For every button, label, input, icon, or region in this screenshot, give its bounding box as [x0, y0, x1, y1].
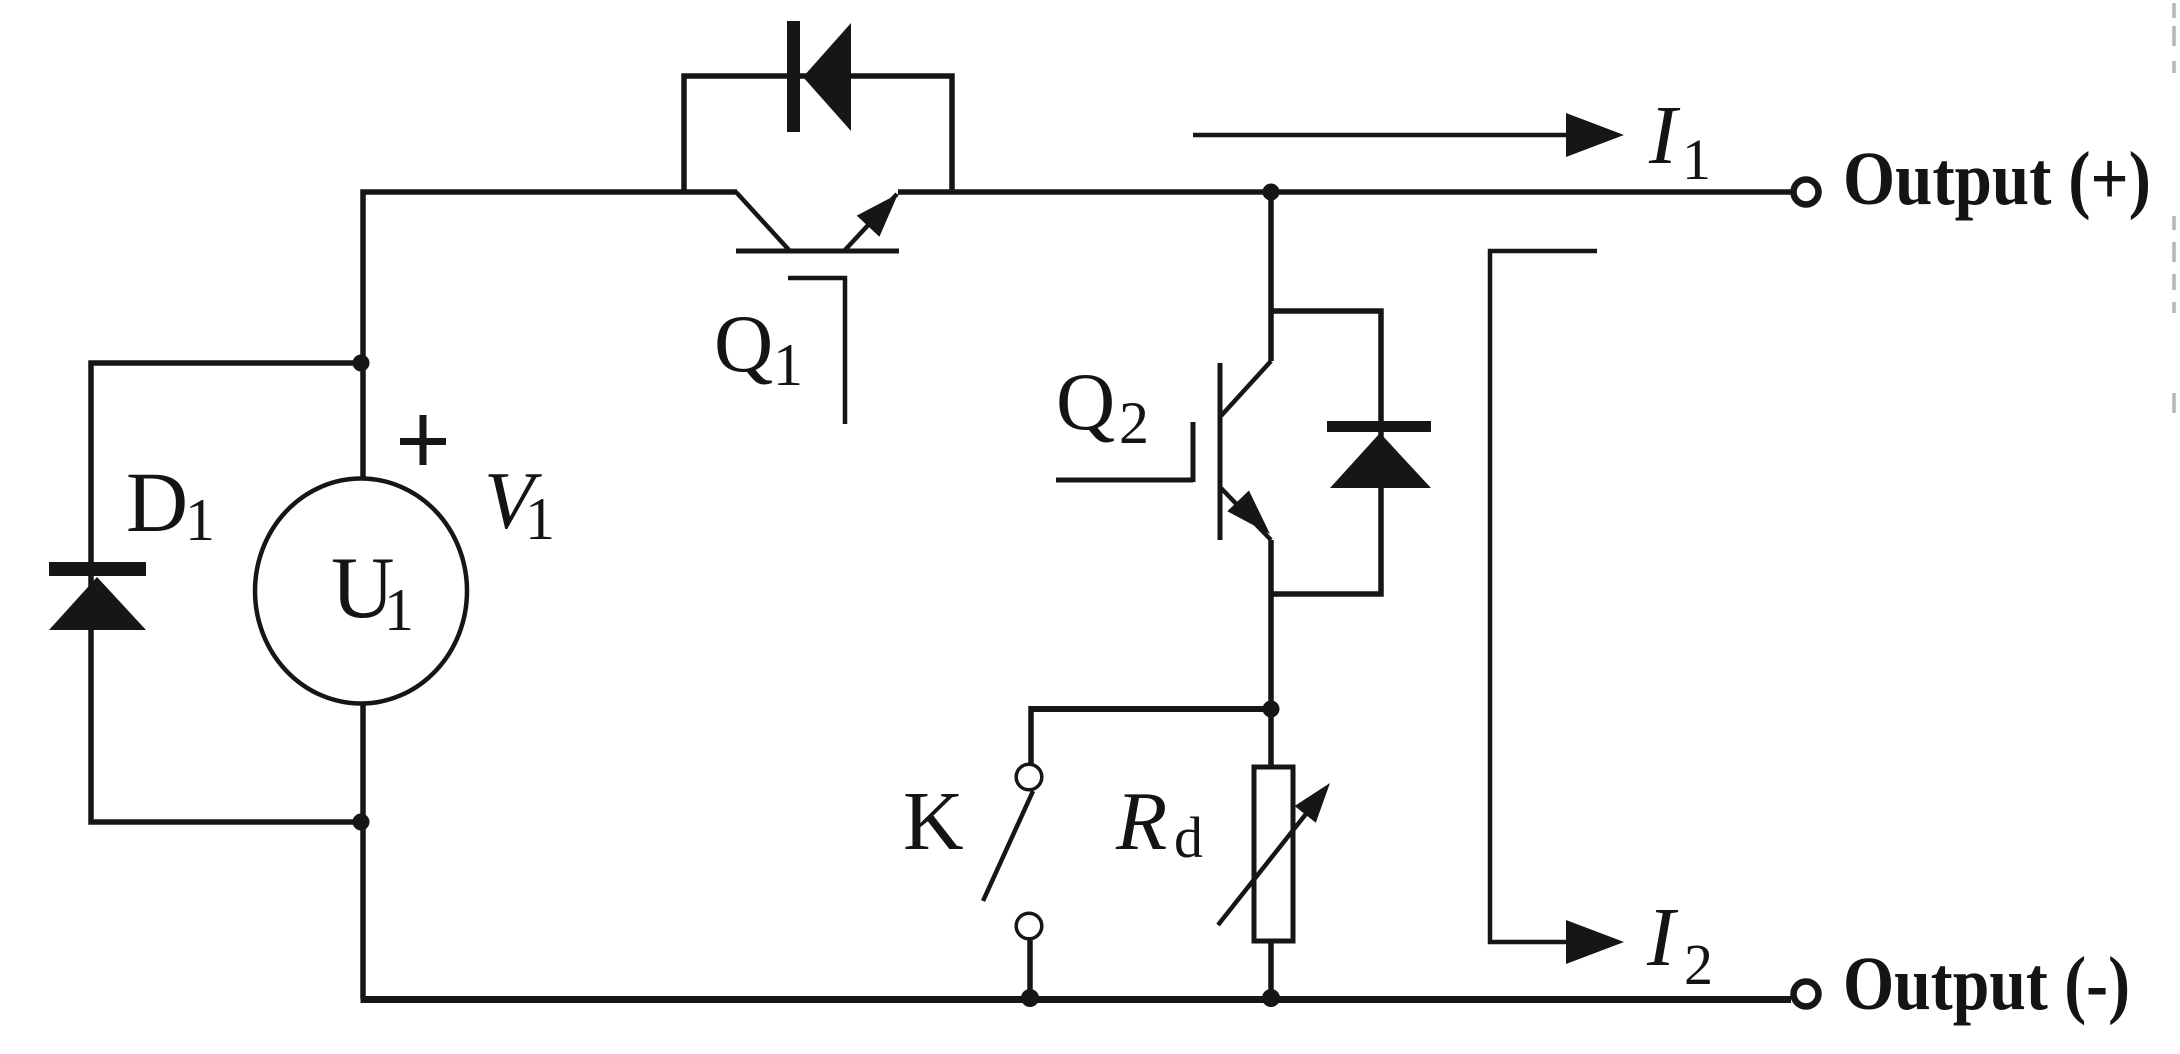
- svg-text:1: 1: [384, 577, 414, 643]
- dashed page-edge line: [2172, 3, 2176, 413]
- svg-text:Q: Q: [1056, 356, 1115, 447]
- diode D1: [49, 562, 146, 630]
- svg-text:1: 1: [185, 487, 215, 553]
- current arrow I1: [1566, 113, 1624, 157]
- node B: U1/D1 top junction: [353, 355, 370, 372]
- transistor Q2: [1056, 361, 1271, 540]
- wire left-bottom: U1 bottom down and bottom rail to Output(-) terminal: [360, 703, 366, 999]
- Q2 emitter diagonal: [1220, 487, 1271, 540]
- Q2 gate bar: [1191, 422, 1196, 482]
- node A: top junction at Q2 trunk: [1263, 184, 1280, 201]
- terminal Output (-): [1794, 982, 1819, 1007]
- Q1 gate bar and lead: [788, 278, 845, 424]
- Rd arrowhead: [1295, 783, 1330, 823]
- Q1 collector diagonal: [736, 192, 789, 250]
- transistor Q1: [736, 192, 899, 424]
- Q2 gate lead: [1056, 478, 1193, 483]
- diode of Q2 (anti-parallel): [1327, 421, 1431, 488]
- K bottom contact: [1016, 913, 1042, 939]
- resistor Rd (variable): [1218, 767, 1330, 941]
- node F: Rd bottom junction on rail: [1262, 989, 1280, 1007]
- wire bottom rail: [361, 996, 1792, 1003]
- svg-text:1: 1: [525, 486, 555, 552]
- svg-text:d: d: [1174, 805, 1203, 870]
- wire top-left: vertical from U1 up and across to Q1 collector: [363, 192, 737, 478]
- K top contact: [1016, 764, 1042, 790]
- svg-text:D: D: [126, 454, 188, 550]
- switch K: [983, 764, 1042, 939]
- Q1 body bar: [736, 249, 899, 254]
- svg-text:I: I: [1646, 891, 1679, 984]
- svg-text:1: 1: [773, 332, 803, 398]
- wire Q2 diode loop: [1271, 311, 1381, 594]
- terminal Output (+): [1794, 180, 1819, 205]
- voltage source U1: [255, 479, 467, 704]
- Q2 emitter arrowhead: [1227, 491, 1270, 535]
- svg-text:2: 2: [1684, 932, 1713, 997]
- wire I2 hook: [1490, 251, 1597, 942]
- wire K branch horizontal: [1031, 706, 1271, 712]
- wire Q2 trunk lower: [1268, 540, 1274, 999]
- Q1 emitter diagonal: [845, 194, 897, 250]
- svg-text:R: R: [1115, 775, 1167, 868]
- svg-text:K: K: [903, 775, 964, 868]
- node C: U1/D1 bottom junction: [353, 814, 370, 831]
- wire top-right: from Q1 emitter to Output(+) terminal: [898, 189, 1791, 195]
- svg-text:Output (+): Output (+): [1843, 137, 2151, 221]
- Q2 collector diagonal: [1220, 361, 1271, 417]
- wire Q2 trunk upper: [1268, 192, 1274, 361]
- wire Q1 anti-parallel diode loop: [684, 76, 952, 192]
- plus sign: [400, 415, 446, 465]
- svg-text:I: I: [1648, 89, 1681, 182]
- wire D1 branch: [91, 363, 363, 822]
- wire K lower lead: [1027, 939, 1033, 999]
- node D: K/Rd top junction: [1263, 701, 1280, 718]
- wire I1 arrow line: [1193, 133, 1570, 138]
- wire K upper lead: [1028, 706, 1034, 764]
- svg-text:2: 2: [1119, 390, 1149, 456]
- current arrow I2: [1566, 920, 1624, 964]
- K blade: [983, 791, 1033, 901]
- node E: K bottom junction on rail: [1021, 989, 1039, 1007]
- svg-text:Output (-): Output (-): [1843, 942, 2130, 1026]
- Q2 body bar: [1218, 363, 1223, 540]
- diode of Q1 (anti-parallel): [787, 21, 851, 132]
- svg-text:Q: Q: [714, 298, 773, 389]
- Q1 emitter arrowhead: [857, 194, 898, 237]
- Rd arrow shaft: [1218, 800, 1317, 925]
- svg-text:1: 1: [1682, 127, 1711, 192]
